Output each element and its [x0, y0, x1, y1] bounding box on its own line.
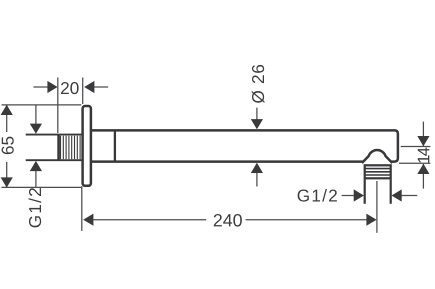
arrow G1/2-left lower (points up) — [30, 161, 42, 171]
arrow 20 left (points right) — [47, 81, 57, 93]
arrow 14 lower (points up) — [417, 164, 429, 174]
tube joint line — [114, 132, 116, 161]
arrow 65 bottom (points down) — [1, 177, 13, 187]
arrow Ø26 lower (points up) — [251, 163, 263, 173]
wall thread nipple G1/2 — [26, 135, 82, 161]
dimension 240 line — [93, 219, 206, 221]
arrow 240 right (points right) — [366, 214, 376, 226]
outlet centerline — [376, 181, 378, 233]
elbow dome — [362, 150, 392, 163]
text G1/2 left (rotated) — [29, 188, 42, 227]
dimension 65 line — [6, 105, 8, 132]
arrow G1/2-right left (points right) — [354, 189, 364, 201]
outlet pipe stub — [365, 179, 391, 204]
arrow 65 top (points up) — [1, 105, 13, 115]
wall plate (escutcheon) — [83, 106, 91, 186]
arrow G1/2-left upper (points down) — [30, 124, 42, 134]
text Ø 26 (rotated) — [252, 65, 265, 103]
arrow 14 upper (points down) — [417, 136, 429, 146]
arrow Ø26 upper (points down) — [251, 119, 263, 129]
dimension 240 left extension — [81, 186, 83, 231]
Ø26 leader lines — [256, 108, 258, 120]
dimension 20 extension lines — [57, 78, 59, 134]
text G1/2 right — [298, 189, 337, 202]
text 240 — [214, 214, 242, 227]
text 20 — [61, 82, 79, 94]
shower arm tube — [92, 130, 398, 161]
dimension 14 extension lines — [401, 146, 431, 148]
arrow 20 right (points left) — [84, 81, 94, 93]
dimension 65 extension lines — [2, 104, 82, 106]
G1/2 right arrow tails — [342, 195, 354, 197]
arrow G1/2-right right (points left) — [392, 189, 402, 201]
outlet thread block G1/2 — [365, 165, 391, 178]
dimension 14 tails — [422, 122, 424, 146]
dimension 20 arrow tails — [33, 86, 48, 88]
text 14 (rotated) — [418, 147, 430, 162]
G1/2 left leader lines — [35, 106, 37, 125]
nipple thread hatch — [61, 136, 81, 159]
text 65 (rotated) — [2, 137, 14, 155]
arrow 240 left (points left) — [83, 214, 93, 226]
